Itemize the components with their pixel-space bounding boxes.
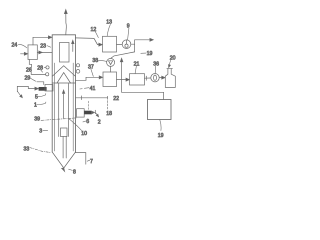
svg-text:41: 41	[90, 86, 96, 92]
svg-text:1: 1	[34, 103, 37, 109]
label 1 leader	[37, 102, 46, 104]
svg-text:38: 38	[92, 58, 98, 64]
chevron deflector	[52, 66, 75, 77]
distributor grid line	[52, 82, 75, 84]
input arrow into box 24	[21, 52, 28, 55]
draft tube bottom nozzle box	[61, 128, 68, 137]
up arrow in draft tube	[62, 90, 64, 118]
riser line from tank with up arrow	[120, 58, 123, 92]
inner rect upper (deflector box)	[60, 43, 70, 63]
label 20 leader arrow	[169, 60, 171, 67]
svg-text:8: 8	[73, 170, 76, 176]
blower 38	[107, 58, 115, 66]
line 37 from wall to box	[76, 77, 100, 80]
label 33 leader dash-dot	[30, 148, 50, 153]
stub blower38 to box 18	[110, 66, 112, 72]
arrow pump36 to bottle	[159, 76, 165, 79]
line 22 to tank	[122, 92, 164, 99]
arrow after screw	[91, 111, 94, 114]
blower 9 outlet arrow	[131, 38, 154, 44]
bottle 20	[165, 69, 175, 88]
discharge end tick	[94, 110, 96, 113]
right nozzle circle upper	[76, 64, 79, 67]
central spout pipe	[63, 137, 66, 159]
label 6 dash	[83, 120, 86, 123]
svg-text:23: 23	[40, 43, 46, 49]
tail arrowhead	[96, 114, 98, 117]
svg-text:13: 13	[106, 20, 112, 26]
label 37 leader	[91, 69, 94, 77]
svg-text:39: 39	[34, 117, 40, 123]
svg-text:36: 36	[153, 62, 159, 68]
label 5 leader	[38, 94, 46, 97]
label 13 leader	[107, 24, 110, 36]
left nozzle circle upper	[46, 66, 49, 69]
up arrow in freeboard	[72, 40, 74, 51]
stub to upper nozzle	[44, 66, 46, 68]
box 21	[130, 74, 145, 85]
recycle line 19 diagonal	[111, 44, 135, 58]
label 9 leader	[128, 28, 129, 39]
valve tick on line 18	[81, 96, 83, 100]
svg-text:10: 10	[81, 131, 87, 137]
svg-text:19: 19	[147, 51, 153, 57]
box 13	[103, 36, 117, 52]
bottle lip	[167, 68, 173, 70]
chain line across column	[41, 118, 78, 121]
tick on pipe	[145, 76, 147, 80]
tank box 14	[148, 100, 172, 120]
label 41 leader dashes	[80, 88, 89, 89]
small leader arrow below	[18, 92, 23, 98]
svg-text:5: 5	[35, 94, 38, 100]
label 18 leader	[107, 101, 109, 110]
screw feeder dark block	[39, 87, 47, 91]
feeder box on wall	[45, 85, 53, 92]
draft tube	[59, 84, 69, 137]
label 21 leader	[135, 66, 136, 73]
vessel inner jacket walls	[55, 63, 74, 151]
discharge tail	[96, 113, 98, 116]
box 24	[28, 45, 37, 60]
pipe box24 top to vessel	[33, 36, 52, 45]
box 18 (scrubber)	[103, 72, 117, 87]
dashed leader near feeder	[87, 101, 89, 110]
svg-text:3: 3	[39, 128, 42, 134]
arrow into box	[99, 76, 102, 79]
left nozzle circle lower	[46, 73, 49, 76]
label 7 leader	[87, 160, 90, 161]
feed line 29 into feeder	[37, 82, 44, 85]
svg-text:22: 22	[113, 96, 119, 102]
bottom outlet pipe 7	[76, 153, 86, 165]
label 28 leader	[41, 70, 43, 72]
svg-text:19: 19	[158, 133, 164, 139]
end tick of line 18	[107, 96, 109, 99]
label 23 leader	[47, 46, 51, 48]
spout triangle	[57, 73, 71, 84]
svg-text:2: 2	[98, 120, 101, 126]
pipe box24 bottom down	[29, 60, 31, 68]
label 10 leader	[69, 119, 82, 131]
pipe vessel top to box 13	[76, 38, 103, 46]
label 29 leader	[30, 78, 36, 82]
lower screw discharge box on wall	[77, 109, 85, 117]
svg-text:24: 24	[12, 43, 18, 49]
pipe box18 to box21	[117, 78, 130, 81]
svg-text:28: 28	[37, 66, 43, 72]
svg-text:7: 7	[90, 159, 93, 165]
pipe box21 to pump36	[145, 77, 151, 79]
svg-text:9: 9	[127, 24, 130, 30]
tank label leader	[160, 120, 161, 131]
vent line arrow up	[64, 10, 67, 35]
svg-text:18: 18	[106, 111, 112, 117]
svg-text:33: 33	[24, 146, 30, 152]
label 3 leader	[43, 129, 48, 131]
pipe box13 to blower 9	[117, 43, 123, 45]
label 19 dash	[141, 52, 146, 54]
cone apex outlet	[62, 168, 65, 171]
feed line from left with arrow	[17, 86, 38, 91]
label 38 leader	[98, 60, 107, 63]
pipe box24 right to vessel	[37, 51, 52, 54]
svg-text:6: 6	[86, 119, 89, 125]
vessel column outer walls	[52, 35, 75, 152]
lower screw dark block	[84, 111, 91, 115]
label 8 leader	[69, 169, 73, 170]
svg-text:29: 29	[25, 76, 31, 82]
bottom cone	[52, 152, 75, 168]
right nozzle circle lower	[76, 70, 80, 74]
pump 36	[151, 74, 159, 82]
blower 9	[122, 40, 131, 49]
label 24 leader	[18, 44, 26, 47]
label 12 leader	[95, 31, 98, 37]
label 36 leader	[154, 66, 157, 73]
pipe down to lower nozzle	[31, 72, 45, 75]
withdrawal line 18 from wall	[76, 97, 108, 99]
